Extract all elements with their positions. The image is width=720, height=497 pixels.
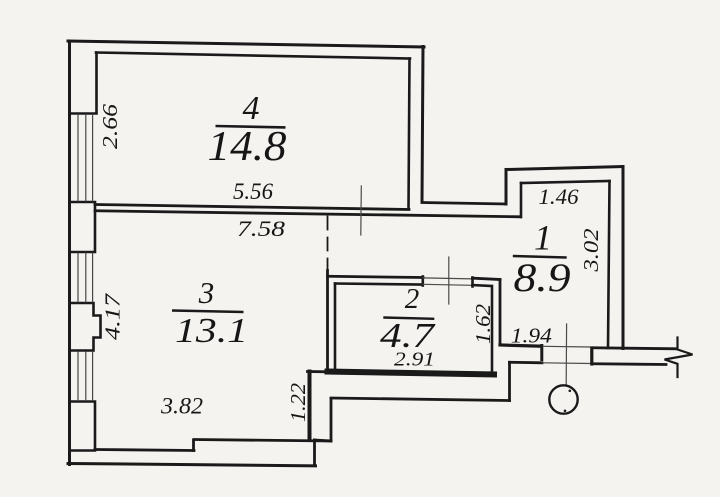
axis tick through entry door and riser [565, 324, 567, 385]
riser circle symbol [549, 385, 577, 413]
wall: room 1 outer right [622, 167, 625, 349]
wall: room 3 bottom inner left [95, 450, 194, 451]
svg-text:2.66: 2.66 [98, 103, 122, 149]
wall: room 2 top outer right [473, 278, 501, 279]
fraction line room 3 [172, 311, 244, 313]
svg-text:13.1: 13.1 [175, 311, 248, 350]
wall: room 1 inner right [608, 181, 610, 348]
fraction line room 4 [216, 126, 286, 127]
svg-text:4: 4 [243, 90, 260, 127]
wall: vertical x=331 below room 2 [330, 399, 333, 442]
wall: room 1 inner left stub [520, 183, 523, 217]
wall: corridor outer top line [422, 203, 506, 205]
wall: room 2 left outer [326, 271, 329, 373]
break (continuation) symbol [665, 338, 693, 378]
svg-text:3.02: 3.02 [579, 228, 603, 273]
wall: link room2 bottom to 1.22 wall [308, 370, 328, 373]
svg-text:2.91: 2.91 [394, 349, 435, 371]
window W3 panes [78, 352, 93, 401]
wall: outer top of room 4 [68, 41, 424, 47]
wall: divider room4/room3 upper line [95, 205, 409, 210]
wall: step horizontal near x=315 [315, 440, 332, 441]
wall: 1.22 vertical [308, 372, 312, 441]
wall: inner top of room 4 [96, 53, 410, 59]
wall: room 2 right inner vertical [491, 286, 494, 374]
wall: divider lower line to room 1 [95, 211, 521, 217]
svg-text:3.82: 3.82 [160, 394, 203, 419]
door jamb right of room 2 top door [471, 278, 474, 287]
svg-text:1.46: 1.46 [539, 184, 579, 209]
svg-text:5.56: 5.56 [233, 179, 273, 204]
window W1 panes [78, 115, 93, 202]
wall pier P1 top-left [70, 53, 97, 114]
svg-text:2: 2 [405, 283, 420, 315]
fraction line room 1 [513, 256, 567, 258]
dashed opening line between hall and room 3 [327, 217, 329, 271]
fraction line room 2 [383, 318, 434, 319]
wall: outer left of building [68, 41, 71, 465]
door jamb left of room 2 top door [421, 277, 424, 286]
wall: top line to break [593, 348, 677, 349]
wall: room 2 right outer vertical [499, 280, 502, 346]
wall: bottom line x 509-542 [510, 361, 543, 364]
wall: room 1 outer top [506, 167, 623, 170]
wall: room 1 outer step vertical [505, 170, 508, 205]
axis tick on room4 bottom wall [360, 186, 363, 235]
svg-text:3: 3 [198, 275, 215, 310]
svg-text:1: 1 [534, 218, 552, 258]
wall: room 2 top outer left [328, 276, 424, 277]
wall pier P4 bottom-left [70, 402, 96, 451]
svg-text:1.94: 1.94 [511, 324, 553, 348]
svg-text:4.17: 4.17 [101, 292, 125, 340]
door thin lines entry door [543, 346, 590, 363]
wall: outer right of room 4 [422, 47, 423, 203]
wall: room 2 top inner left [335, 284, 422, 285]
axis tick on room2 top door [448, 257, 450, 304]
wall under 1.94 label [500, 345, 542, 346]
svg-text:7.58: 7.58 [237, 216, 285, 241]
wall: room 2 bottom [328, 372, 495, 375]
riser circle dots [569, 390, 572, 393]
wall: room 2 left inner [334, 284, 337, 369]
wall pier P2 left [70, 202, 96, 252]
wall pier P3 left with bump [70, 303, 101, 351]
door thin lines room 2 top door [423, 278, 472, 285]
svg-text:1.62: 1.62 [471, 303, 495, 344]
svg-text:8.9: 8.9 [514, 255, 571, 300]
wall: inner right of room 4 [409, 59, 410, 210]
door jamb left of entry door [540, 346, 543, 360]
wall: step vertical x=193.5 [192, 440, 195, 451]
door jamb right of entry door [590, 348, 593, 364]
wall: room 1 inner top [521, 181, 610, 183]
svg-text:1.22: 1.22 [286, 382, 310, 422]
wall: vertical x=509.5 step up [508, 362, 511, 400]
wall: room 2 top inner right [473, 285, 492, 286]
wall: step vertical x=314.5 [313, 440, 316, 466]
wall: bottom outer [68, 464, 316, 466]
window W2 panes [78, 253, 93, 302]
wall: room 3 bottom inner right [194, 440, 331, 442]
svg-text:14.8: 14.8 [208, 124, 287, 170]
wall: bottom line to break [594, 362, 667, 366]
wall: lower corridor outer bottom [331, 398, 510, 401]
